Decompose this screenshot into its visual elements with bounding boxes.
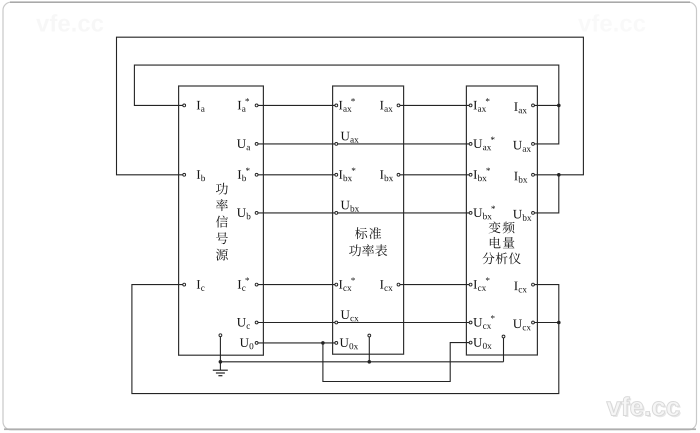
junction: ground bus at U1 stem <box>219 360 223 364</box>
wire segment: U3 Ucx to junction on net C <box>534 322 558 324</box>
terminal U1 U0 <box>240 338 258 349</box>
terminal U1 Ib <box>183 170 205 181</box>
terminal U3 ground <box>502 335 505 338</box>
terminal U3 Ucx <box>513 319 534 330</box>
terminal U3 U0x <box>469 338 491 349</box>
wire row: U2 Icx to U3 Icx* <box>400 284 469 286</box>
terminal U3 Uax <box>513 141 534 152</box>
terminal U2 Icx <box>380 280 400 291</box>
instrument box U3: frequency-conversion power analyzer 变频电量分析仪 <box>466 86 537 355</box>
terminal U2 Ibx* <box>335 168 356 182</box>
junction: net A at U3 Iax <box>557 104 561 108</box>
terminal U2 Icx* <box>335 277 355 291</box>
terminal U2 Iax* <box>335 98 355 112</box>
terminal U1 Ia* <box>238 98 258 112</box>
terminal U2 U0x <box>335 338 358 349</box>
terminal U2 Uax <box>335 132 359 146</box>
wire net C: U1 Ic to U3 Icx/Ucx (loop via bottom) <box>132 285 559 394</box>
wire net A: U1 Ia to U3 Iax/Uax (loop via top) <box>134 65 558 105</box>
wire segment: U3 Iax to junction on net A <box>534 104 558 106</box>
terminal U3 Ubx <box>513 210 534 221</box>
terminal U1 Ib* <box>238 168 258 182</box>
terminal U2 Iax <box>380 101 400 112</box>
terminal U3 Icx <box>514 282 534 293</box>
terminal U3 Ucx* <box>469 315 494 329</box>
terminal U1 Uc <box>237 318 258 329</box>
wire net GND: ground bus U1 to U3 <box>220 361 503 363</box>
instrument box U1: power signal source 功率信号源 <box>179 86 264 355</box>
value label: U3 name 变频电量分析仪 <box>482 221 520 264</box>
wire net B: U1 Ib to U3 Ibx (outermost loop via top) <box>117 37 584 175</box>
terminal U2 Ubx <box>335 201 359 215</box>
wire row: U1 Ib* to U2 Ibx* <box>258 174 335 176</box>
wire row: U1 U0 to U2 U0x <box>258 342 335 344</box>
wire row: U1 Ia* to U2 Iax* <box>258 104 335 106</box>
junction: U0 branch node <box>321 341 325 345</box>
terminal U1 Ua <box>237 139 258 150</box>
terminal U2 Ucx <box>335 310 359 324</box>
wire row: U1 Ub through U2 Ubx to U3 Ubx* <box>258 212 469 214</box>
wire row: U1 Uc through U2 Ucx to U3 Ucx* <box>258 322 469 324</box>
instrument box U2: standard power meter 标准功率表 <box>333 86 404 354</box>
junction: ground bus at U2 stem <box>368 360 372 364</box>
terminal U1 Ia <box>183 101 205 112</box>
value label: U1 name 功率信号源 (vertical) <box>216 183 228 261</box>
terminal U3 Icx* <box>469 277 489 291</box>
wire branch: U0 node down and across to U3 U0x <box>323 343 469 382</box>
wire stem: U2 ground terminal to ground bus <box>368 337 370 362</box>
terminal U1 ground <box>219 334 222 337</box>
junction: net B at U3 Ibx <box>557 173 561 177</box>
terminal U3 Iax <box>514 102 534 113</box>
terminal U3 Uax* <box>469 137 494 151</box>
wire stem: U3 ground terminal to ground bus <box>503 338 505 362</box>
terminal U3 Iax* <box>469 98 489 112</box>
terminal U3 Ubx* <box>469 206 495 220</box>
value label: U2 name 标准功率表 <box>349 227 387 256</box>
terminal U1 Ub <box>237 208 258 219</box>
wire segment: U3 Ibx junction down to Ubx <box>534 175 558 213</box>
wire stem: U1 ground terminal to ground bus <box>219 337 221 371</box>
wire row: U2 Iax to U3 Iax* <box>400 104 469 106</box>
terminal U3 Ibx <box>514 172 534 183</box>
terminal U1 Ic* <box>238 277 258 291</box>
wire row: U1 Ic* to U2 Icx* <box>258 284 335 286</box>
wire segment: U3 Iax junction down to Uax <box>534 105 558 143</box>
terminal U2 Ibx <box>380 170 400 181</box>
terminal U2 ground <box>368 334 371 337</box>
terminal U3 Ibx* <box>469 168 490 182</box>
wire row: U2 Ibx to U3 Ibx* <box>400 174 469 176</box>
ground (earth symbol) <box>213 370 228 376</box>
wire row: U1 Ua through U2 Uax to U3 Uax* <box>258 143 469 145</box>
junction: net C at U3 Ucx <box>557 321 561 325</box>
terminal U1 Ic <box>183 280 205 291</box>
